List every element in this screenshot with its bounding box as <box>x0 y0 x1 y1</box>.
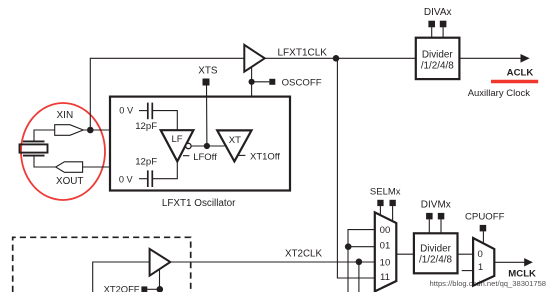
svg-text:OSCOFF: OSCOFF <box>282 77 322 88</box>
svg-text:01: 01 <box>380 240 391 251</box>
crystal Y1 body <box>20 144 48 152</box>
control bit XTS square <box>203 79 210 86</box>
wire XIN up to buffer input <box>90 58 244 130</box>
wire SMCLK stub input 1 <box>462 270 473 272</box>
control bit DIVAx squares <box>428 21 435 28</box>
capacitor C1 lead <box>139 110 147 112</box>
svg-text:XIN: XIN <box>57 110 74 121</box>
svg-text:ACLK: ACLK <box>507 68 534 79</box>
oscillator box LFXT1 <box>110 97 290 191</box>
wire XTS into oscillator <box>206 86 208 147</box>
buffer U2 XT2CLK <box>150 249 171 276</box>
svg-text:00: 00 <box>380 225 391 236</box>
svg-text:DIVMx: DIVMx <box>421 200 451 211</box>
red underline ACLK <box>491 80 538 84</box>
svg-text:CPUOFF: CPUOFF <box>465 212 505 223</box>
wire OSCOFF stub <box>252 81 270 83</box>
wire LFXT1CLK <box>265 57 416 59</box>
wire XT2CLK to mux 10 <box>170 261 374 263</box>
svg-text:LFXT1 Oscillator: LFXT1 Oscillator <box>162 198 236 209</box>
svg-text:XT2CLK: XT2CLK <box>285 248 322 259</box>
pad XIN <box>55 125 84 136</box>
tick LFOff <box>183 155 189 157</box>
node XT2OFF junction <box>157 286 164 292</box>
svg-text:/1/2/4/8: /1/2/4/8 <box>419 254 452 265</box>
svg-text:XTS: XTS <box>198 65 218 76</box>
wire MCLK output <box>494 261 525 263</box>
wire CPUOFF stub <box>482 231 484 242</box>
node XT2CLK junction <box>356 259 363 266</box>
wire LF to XT <box>191 145 224 147</box>
wire vertical LFXT1CLK to mux 11 <box>337 58 374 278</box>
svg-text:XT1Off: XT1Off <box>250 151 280 162</box>
crystal Y1 plate top <box>23 140 45 142</box>
node LFXT1CLK junction <box>333 55 340 62</box>
svg-text:Divider: Divider <box>422 49 453 60</box>
red highlight ellipse <box>21 103 105 200</box>
control bit DIVMx squares <box>426 213 433 220</box>
mux SELM <box>375 212 397 291</box>
svg-text:12pF: 12pF <box>135 121 157 132</box>
svg-text:XT: XT <box>229 135 241 146</box>
wire C1 to LF input <box>153 111 177 130</box>
wire mux input 00 <box>348 230 375 292</box>
capacitor C2 lead <box>139 178 147 180</box>
wire XIN pad to crystal <box>34 130 55 141</box>
wire XT2 enable <box>159 269 161 292</box>
svg-text:Divider: Divider <box>420 243 451 254</box>
svg-text:LFXT1CLK: LFXT1CLK <box>278 48 328 59</box>
control bit CPUOFF square <box>480 225 487 232</box>
pad XOUT <box>56 162 83 173</box>
svg-text:0: 0 <box>478 249 483 260</box>
wire XT2OFF stub <box>147 288 160 290</box>
wire XIN pad to oscillator box <box>83 129 110 131</box>
svg-text:/1/2/4/8: /1/2/4/8 <box>421 61 454 72</box>
wire buffer enable to OSCOFF <box>251 67 253 96</box>
control bit OSCOFF square <box>269 79 275 85</box>
capacitor C1 plates <box>147 103 149 120</box>
divider box MCLK <box>414 233 458 273</box>
wire XOUT pad to oscillator box <box>83 166 110 168</box>
buffer U1 LFXT1CLK <box>244 45 264 72</box>
svg-text:LF: LF <box>172 134 183 145</box>
wire crystal to XOUT pad <box>34 156 56 167</box>
crystal Y1 plate bottom <box>23 155 45 157</box>
svg-text:XOUT: XOUT <box>56 176 83 187</box>
wire divider to ACLK arrow <box>459 57 522 59</box>
control bit XT2OFF square <box>141 286 147 292</box>
svg-text:https://blog.csdn.net/qq_38301: https://blog.csdn.net/qq_38301758 <box>430 279 547 288</box>
wire LF output to C2 <box>153 162 177 179</box>
capacitor C2 plates <box>147 170 149 187</box>
node XIN junction <box>87 127 94 134</box>
svg-text:MCLK: MCLK <box>508 269 536 280</box>
svg-text:0 V: 0 V <box>119 105 134 115</box>
svg-text:DIVAx: DIVAx <box>424 7 452 18</box>
svg-text:10: 10 <box>380 257 391 268</box>
inverter XT <box>217 130 251 161</box>
node 01 junction <box>345 243 352 250</box>
svg-text:11: 11 <box>380 272 390 283</box>
arrow ACLK <box>521 54 530 63</box>
svg-text:SELMx: SELMx <box>370 187 401 198</box>
svg-text:0 V: 0 V <box>119 174 134 184</box>
LF enable bubble <box>186 143 191 148</box>
svg-text:1: 1 <box>478 262 483 273</box>
wire divider to CPUOFF mux <box>458 253 474 255</box>
wire DCOCLK vertical <box>358 262 360 292</box>
svg-text:Auxillary Clock: Auxillary Clock <box>468 88 531 99</box>
wire XT2 buffer input <box>93 262 150 292</box>
wire DIVMx stubs <box>428 219 430 233</box>
wire SELMx stubs <box>379 206 381 216</box>
svg-text:12pF: 12pF <box>135 157 157 168</box>
tick XT1Off <box>239 154 246 156</box>
wire mux input 01 <box>348 246 375 248</box>
inverter LF <box>161 130 194 161</box>
node OSCOFF junction <box>249 79 255 85</box>
mux CPUOFF <box>473 238 494 286</box>
node LF/XT junction <box>204 143 210 149</box>
svg-text:LFOff: LFOff <box>193 152 217 163</box>
dashed box XT2 oscillator <box>13 237 191 292</box>
wire DIVAx stubs <box>431 27 433 37</box>
svg-text:XT2OFF: XT2OFF <box>104 284 140 292</box>
wire mux output to divider MCLK <box>396 253 414 255</box>
arrow MCLK <box>524 258 533 266</box>
divider box ACLK <box>416 38 460 79</box>
control bit SELMx squares <box>377 200 383 206</box>
